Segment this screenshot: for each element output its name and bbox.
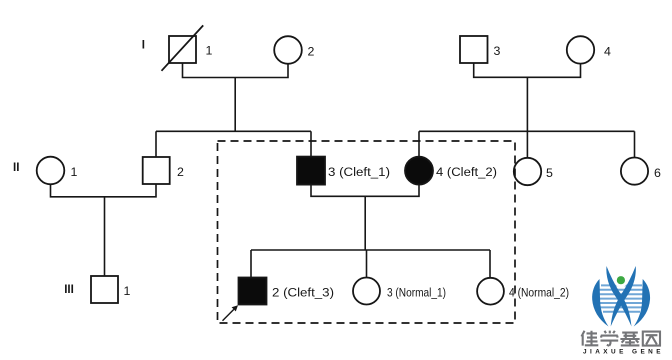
couple line II-3/II-4: [311, 185, 419, 197]
consanguinity study dashed box: [218, 141, 516, 323]
char yin 因: [643, 332, 660, 346]
individual III-4 circle: [477, 278, 504, 305]
couple line II-1/II-2: [51, 184, 157, 197]
individual I-4 circle: [567, 36, 594, 63]
individual III-1 square: [91, 276, 118, 303]
wire drop II couple to gen III sibship: [364, 196, 366, 250]
char xue 学: [601, 331, 619, 346]
wire drop I couple to gen II left sibship: [234, 78, 236, 132]
proband arrow: [223, 305, 239, 321]
left outer wing: [592, 279, 608, 327]
individual I-1 square deceased: [169, 36, 196, 63]
svg-text:2: 2: [177, 165, 184, 179]
wire to III-2: [250, 250, 252, 278]
sibship line gen II left: [156, 130, 311, 132]
individual II-2 square: [143, 157, 170, 184]
svg-text:JIAXUE GENE: JIAXUE GENE: [583, 349, 661, 356]
sibship line gen II right: [419, 130, 635, 132]
char ji 基: [620, 332, 639, 346]
wire to II-6: [634, 131, 636, 157]
svg-text:4 (Cleft_2): 4 (Cleft_2): [436, 165, 497, 179]
svg-text:III: III: [64, 283, 74, 296]
individual III-3 circle: [353, 278, 380, 305]
wire to III-4: [489, 250, 491, 278]
wire to III-3: [366, 250, 368, 278]
svg-text:1: 1: [206, 44, 213, 58]
individual I-3 square: [460, 36, 488, 63]
right inner arm: [611, 266, 636, 327]
left inner arm: [606, 266, 631, 327]
svg-text:3: 3: [494, 44, 501, 58]
svg-text:2: 2: [308, 45, 315, 59]
svg-text:2 (Cleft_3): 2 (Cleft_3): [272, 285, 334, 299]
sibship line gen III: [251, 249, 490, 251]
individual III-2 affected square (proband): [239, 278, 267, 305]
right outer wing: [634, 279, 650, 327]
svg-text:4: 4: [604, 45, 611, 59]
couple line I-3/I-4: [474, 63, 581, 77]
slash I-1: [162, 25, 204, 70]
svg-text:I: I: [142, 39, 145, 52]
svg-text:3 (Normal_1): 3 (Normal_1): [387, 285, 446, 299]
individual II-5 circle: [514, 158, 541, 185]
green head dot: [617, 276, 625, 284]
individual I-2 circle: [274, 36, 302, 64]
individual II-3 affected square: [297, 157, 325, 185]
couple line I-1/I-2: [183, 63, 289, 78]
wire drop I right couple through sibship to II-5: [526, 77, 528, 158]
wire to II-2: [155, 131, 157, 157]
svg-text:5: 5: [546, 166, 553, 180]
individual II-4 affected circle: [405, 157, 433, 185]
svg-text:1: 1: [71, 165, 78, 179]
char jia 佳: [582, 331, 599, 346]
wire to II-4: [418, 131, 420, 156]
logo chinese wordmark (drawn strokes): [582, 331, 661, 346]
white halo under head dot: [614, 273, 628, 287]
wire to II-3: [310, 131, 312, 156]
stripes: [597, 285, 647, 311]
svg-text:II: II: [13, 161, 19, 174]
individual II-6 circle: [621, 158, 648, 185]
svg-text:4 (Normal_2): 4 (Normal_2): [509, 285, 569, 299]
svg-text:1: 1: [124, 284, 131, 298]
individual II-1 circle: [37, 157, 65, 185]
logo emblem: DNA butterfly: [592, 266, 650, 327]
svg-text:3 (Cleft_1): 3 (Cleft_1): [328, 165, 390, 179]
wire drop to III-1: [104, 197, 106, 276]
svg-text:6: 6: [654, 166, 661, 180]
